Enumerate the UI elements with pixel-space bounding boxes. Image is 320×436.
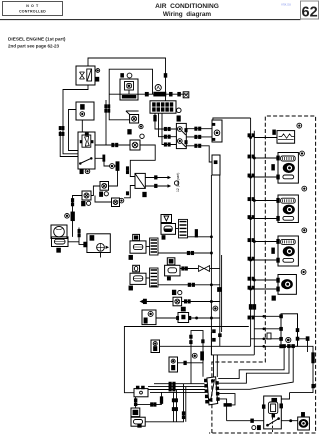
frame wires around lamp box	[109, 69, 152, 120]
wire: C3 to bus	[188, 236, 212, 238]
svg-text:vnx.su: vnx.su	[281, 2, 291, 6]
compressor clutch coil box	[52, 237, 69, 247]
svg-text:AIR CONDITIONING: AIR CONDITIONING	[155, 3, 219, 10]
wire: fuse to harness	[160, 345, 212, 347]
wire with left arrow	[140, 300, 144, 304]
connector right side wires	[219, 394, 235, 405]
header: NOT CONTROLLED box	[3, 2, 63, 16]
B1 side terminal block	[96, 77, 99, 81]
diode box D1	[135, 173, 145, 188]
svg-text:CONTROLLED: CONTROLLED	[19, 9, 46, 13]
center bus A	[210, 175, 212, 355]
wire to right down	[290, 346, 314, 392]
ground marks	[252, 426, 256, 430]
thermal switch TH1	[110, 164, 115, 169]
bus tick pairs	[248, 134, 250, 137]
blower switch SW2	[176, 123, 186, 148]
ammeter symbol	[155, 85, 161, 91]
temp sender S2	[133, 265, 140, 272]
D1 output arrows	[145, 177, 167, 179]
wire: S3 to plug	[180, 268, 198, 270]
connector left side wires	[154, 383, 205, 385]
heater control dashed link	[272, 413, 274, 432]
wire: B12 to bus	[191, 317, 220, 319]
motor block MB3	[254, 241, 278, 243]
header: rule under title	[0, 19, 301, 21]
wire: down to relay R7	[109, 170, 118, 186]
wire: B8 to R7b chain	[95, 196, 112, 203]
wires: harness to bulkhead connector	[213, 355, 215, 377]
sensor B15	[131, 417, 145, 426]
wire: SW1 thermo branch	[95, 158, 110, 166]
AC amplifier box B3a	[87, 234, 110, 253]
relay R8	[173, 297, 182, 306]
drop wire to bulkhead connector	[202, 346, 204, 377]
blower resistor box B9	[212, 120, 222, 142]
connector on feed wire	[164, 74, 167, 78]
wire: B9 top to right bus	[213, 118, 251, 120]
heater resistor RS	[254, 137, 277, 139]
ignition switch SW1	[78, 132, 95, 169]
control unit box U1	[281, 314, 298, 347]
fuse box connector CB1	[150, 101, 176, 113]
wire from harness to heater switch	[281, 393, 289, 399]
wire: B1 bottom to left drop	[63, 85, 88, 154]
B1 side terminal circle	[96, 69, 100, 73]
svg-text:2nd part see page 62-23: 2nd part see page 62-23	[8, 44, 60, 49]
heater valve box B11	[142, 310, 156, 325]
wire: left feed to switch	[227, 420, 264, 422]
wire: C1 to center bus	[158, 252, 211, 254]
wire: fuse2 to drop	[178, 362, 204, 364]
cable segment	[116, 162, 119, 171]
relay R6	[130, 140, 140, 150]
U1 right wires	[298, 339, 308, 352]
connector pairs on left drops	[59, 127, 61, 130]
sensor B12	[178, 313, 189, 323]
relay R7b	[82, 191, 91, 200]
inline fuse F2	[169, 357, 178, 372]
wire: D1 to aux relay	[124, 186, 135, 198]
motor block MB2	[254, 200, 278, 202]
wire: plug to bus	[210, 268, 220, 270]
wire: left drop 2	[60, 131, 78, 157]
heater tap S3	[167, 258, 175, 265]
relay box B2	[76, 102, 94, 120]
long ground wire	[124, 327, 248, 393]
coil connector C2	[150, 268, 158, 287]
svg-text:DIESEL ENGINE (1st part): DIESEL ENGINE (1st part)	[8, 37, 66, 42]
wire: R6 to diode feed	[130, 145, 155, 177]
wire: C2 to bus	[158, 284, 220, 286]
interior lamp box B4	[120, 79, 138, 100]
branch wire	[137, 404, 162, 406]
wire down	[135, 397, 137, 408]
svg-text:N O T: N O T	[26, 4, 39, 8]
aux relay B8	[119, 198, 124, 203]
thermostat B13	[134, 389, 148, 397]
heater fan motor M5	[298, 417, 310, 430]
top sender S4	[161, 215, 172, 223]
main feed wire with cable	[109, 93, 188, 95]
inline plug P1	[199, 266, 210, 272]
motor block MB1	[254, 157, 278, 159]
label tag	[267, 333, 271, 339]
coil connector C1	[150, 238, 158, 255]
header: page number box	[301, 1, 319, 19]
relay box R5	[130, 115, 139, 124]
washer pump sender S1	[133, 234, 140, 240]
fusible link box	[183, 92, 189, 98]
compressor clutch box B1	[76, 66, 95, 85]
harness frame bottom	[211, 332, 254, 355]
drops from fuse box to blower switch	[155, 113, 176, 129]
relay box B10	[212, 155, 220, 175]
svg-text:Wiring diagram: Wiring diagram	[163, 11, 212, 18]
wire: B1 top feed	[88, 58, 166, 101]
right feed buses	[250, 118, 252, 346]
wire: R8 to bus	[182, 301, 220, 303]
wire: compressor to AC amplifier	[79, 228, 87, 245]
svg-text:12 (2nd part): 12 (2nd part)	[176, 173, 180, 192]
compressor motor circle box	[51, 225, 67, 239]
wire: SW1 to relay R6	[95, 144, 130, 146]
wire: R7b down to compressor	[73, 196, 83, 237]
junction dots on buses	[250, 137, 252, 139]
wire: B2 bottom to ignition	[81, 120, 83, 132]
svg-text:62: 62	[302, 4, 318, 20]
wires: SW2 to resistor relay	[186, 128, 212, 130]
bottom link wire	[145, 384, 183, 422]
U1 bottom wires	[218, 348, 284, 379]
wire: R7 to R7b	[91, 186, 100, 196]
coil connector C3	[179, 219, 188, 238]
inline fuse F1	[151, 340, 160, 353]
relay R7	[100, 182, 109, 191]
SW1 bottom terminal	[80, 169, 83, 174]
ground branch drop	[196, 317, 198, 319]
wire: switch to motor	[281, 420, 297, 422]
bus connector blocks	[249, 305, 252, 310]
wire to sensor B12	[156, 317, 178, 319]
wire: B2 left	[69, 110, 79, 151]
center bus B	[219, 175, 221, 346]
motor block MB4	[254, 279, 278, 281]
sensor B14	[131, 408, 140, 417]
